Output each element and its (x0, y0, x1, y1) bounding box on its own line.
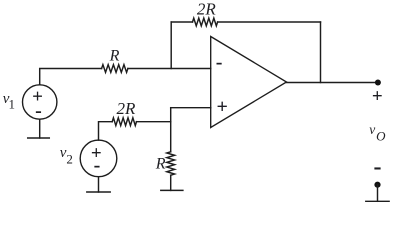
svg-text:O: O (376, 128, 386, 143)
wire 2R to junction (137, 121, 171, 123)
resistor 2R (series, noninverting input) (112, 118, 136, 126)
wire v1 bottom to ground (39, 119, 41, 138)
svg-text:-: - (374, 154, 382, 180)
label vO (369, 122, 386, 143)
svg-text:-: - (94, 155, 101, 177)
voltage source V2 (80, 140, 117, 177)
node bottom dot (374, 182, 380, 188)
ground (V1) (28, 137, 50, 139)
svg-text:-: - (216, 51, 223, 73)
wire resistor R to op-amp inverting input (128, 68, 211, 70)
svg-text:2: 2 (66, 151, 73, 166)
wire v2 top to resistor 2R (99, 122, 113, 140)
resistor R (series, inverting input) (102, 65, 128, 73)
label v2 (60, 145, 73, 166)
wire feedback top right (218, 21, 321, 23)
wire junction vertical (170, 108, 172, 152)
resistor R (shunt to ground) (167, 152, 175, 175)
voltage source V1 (23, 85, 57, 122)
resistor 2R (feedback) (193, 18, 218, 26)
wire v1 top to resistor R (40, 69, 102, 85)
svg-text:R: R (109, 47, 120, 64)
wire feedback top left (171, 21, 192, 23)
wire feedback right vertical to output (320, 22, 322, 83)
svg-text:R: R (155, 156, 166, 173)
wire v2 bottom to ground (98, 177, 100, 192)
ground (shunt R) (161, 189, 183, 191)
svg-text:1: 1 (9, 96, 16, 111)
wire feedback left vertical (170, 22, 172, 69)
svg-text:+: + (216, 96, 227, 118)
svg-text:-: - (35, 100, 42, 122)
svg-text:2R: 2R (197, 0, 217, 19)
wire op-amp output (287, 82, 378, 84)
wire to op-amp noninverting input (171, 107, 211, 109)
ground (V2) (87, 191, 110, 193)
svg-text:+: + (372, 86, 383, 107)
ground (output reference) (366, 200, 389, 202)
op-amp U1 (211, 37, 287, 128)
svg-text:2R: 2R (117, 99, 137, 118)
wire bottom node stub (377, 185, 379, 202)
wire resistor to ground (170, 175, 172, 190)
node output dot (375, 80, 381, 86)
svg-text:v: v (369, 122, 375, 137)
label v1 (3, 91, 15, 111)
